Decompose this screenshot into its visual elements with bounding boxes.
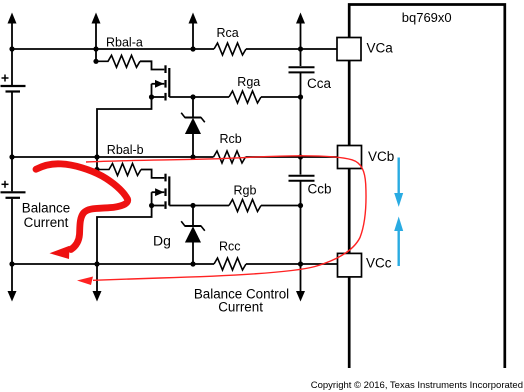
transistor Q1 xyxy=(152,65,170,100)
thin red balance control current arrow xyxy=(77,156,366,285)
transistor Q2 xyxy=(152,174,170,209)
wire Q1 gate lead xyxy=(169,96,193,98)
wire Q2 gate lead xyxy=(169,205,193,207)
svg-text:Rbal-a: Rbal-a xyxy=(106,35,143,49)
resistor Rca xyxy=(214,43,246,55)
wire Rgb to cap node xyxy=(261,205,301,207)
wire Q2 source return to rail c xyxy=(97,206,152,265)
svg-text:Rca: Rca xyxy=(217,26,239,40)
wire tap rail b to Rbal-b xyxy=(96,157,98,170)
battery cell 1 xyxy=(1,75,26,92)
svg-text:Rcb: Rcb xyxy=(220,132,242,146)
thick red balance current arrow xyxy=(36,164,128,259)
resistor Rga xyxy=(229,91,261,103)
wire Rga to cap node xyxy=(261,96,301,98)
down arrow bottom x12 xyxy=(8,264,17,302)
up arrow top x193 xyxy=(189,13,198,50)
node dots gate row b xyxy=(149,203,303,208)
node dots rail a xyxy=(9,46,303,64)
pin box VCb xyxy=(338,146,362,169)
wire cap column b-c xyxy=(300,206,302,265)
resistor Rbal-b xyxy=(97,164,141,176)
capacitor Ccb xyxy=(289,157,315,206)
down arrow bottom x300 xyxy=(296,264,305,302)
down arrow bottom x97 xyxy=(93,264,102,302)
wire gate node to Rgb xyxy=(193,205,229,207)
svg-text:Copyright © 2016, Texas Instru: Copyright © 2016, Texas Instruments Inco… xyxy=(311,380,523,391)
wire rail c xyxy=(12,263,338,265)
zener diode Dg xyxy=(181,206,205,265)
zener diode D1 xyxy=(181,97,205,157)
pin box VCa xyxy=(337,38,361,61)
up arrow top x300 xyxy=(296,13,305,50)
wire left stack column xyxy=(11,49,13,264)
svg-text:Rga: Rga xyxy=(237,75,260,89)
pin box VCc xyxy=(338,253,362,277)
up arrow top x96 xyxy=(92,13,101,50)
blue arrow up (VCc sense) xyxy=(394,217,403,267)
resistor Rgb xyxy=(229,200,261,212)
IC bq769x0 outline xyxy=(349,5,505,369)
svg-text:Dg: Dg xyxy=(153,232,171,248)
node dots rail c xyxy=(9,261,303,266)
battery cell 2 xyxy=(1,181,26,198)
svg-text:bq769x0: bq769x0 xyxy=(402,10,452,25)
node dots rail b xyxy=(9,154,303,172)
svg-text:Balance: Balance xyxy=(22,201,70,216)
wire gate node to Rga xyxy=(193,96,229,98)
svg-text:Current: Current xyxy=(24,215,69,230)
wire Rbal-b to Q2 drain xyxy=(141,170,164,178)
svg-text:Rgb: Rgb xyxy=(234,184,257,198)
up arrow top x12 xyxy=(8,13,17,50)
wire rail a xyxy=(12,48,338,50)
svg-text:VCc: VCc xyxy=(366,256,392,271)
svg-text:VCa: VCa xyxy=(367,41,394,56)
wire tap rail a to Rbal-a xyxy=(95,49,97,61)
resistor Rbal-a xyxy=(96,55,140,67)
resistor Rcb xyxy=(214,151,246,163)
wire rail b xyxy=(12,156,338,158)
svg-text:Cca: Cca xyxy=(307,76,331,91)
svg-text:Rbal-b: Rbal-b xyxy=(107,143,144,157)
svg-text:Ccb: Ccb xyxy=(308,182,332,197)
blue arrow down (VCb sense) xyxy=(394,158,403,207)
resistor Rcc xyxy=(214,258,246,270)
wire Q1 source return to rail b xyxy=(97,97,152,157)
svg-text:Rcc: Rcc xyxy=(219,240,241,254)
wire Rbal-a to Q1 drain xyxy=(140,61,164,69)
wire cap column a-b xyxy=(300,97,302,157)
svg-text:Current: Current xyxy=(218,300,263,315)
node dots gate row a xyxy=(149,94,303,99)
capacitor Cca xyxy=(289,49,315,97)
svg-text:VCb: VCb xyxy=(368,149,394,164)
